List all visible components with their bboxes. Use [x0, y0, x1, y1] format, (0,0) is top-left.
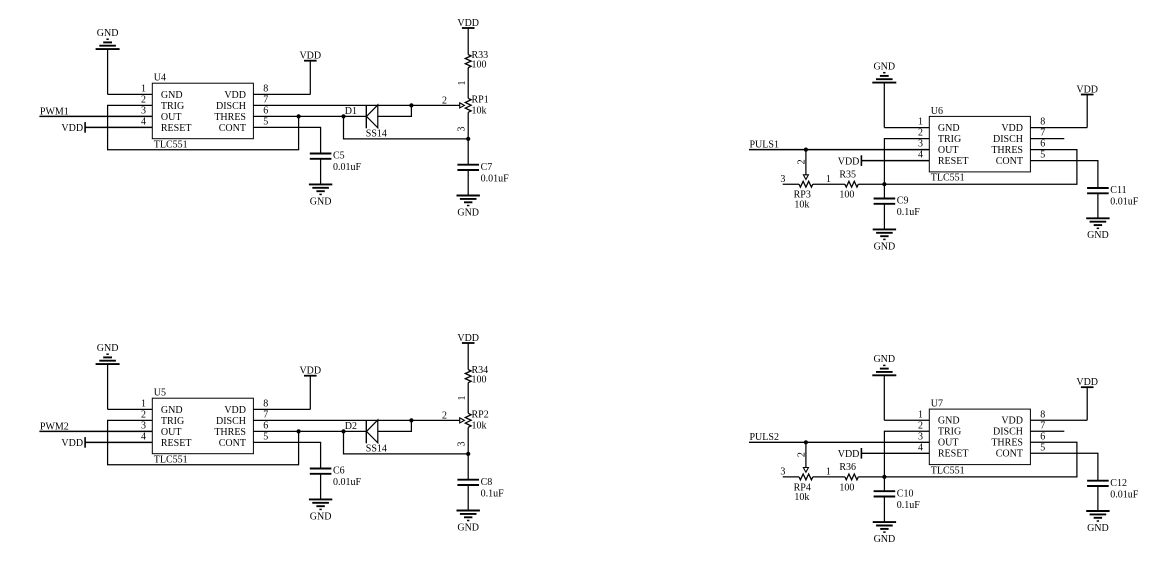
wire THRES pin6 to diode D1 — [253, 115, 366, 117]
svg-text:10k: 10k — [794, 199, 809, 210]
wiper arrow of RP4 — [803, 468, 808, 473]
svg-text:TRIG: TRIG — [161, 416, 184, 427]
svg-text:VDD: VDD — [1076, 377, 1098, 388]
svg-text:R35: R35 — [839, 169, 856, 180]
wire C8 to ground — [467, 485, 469, 511]
svg-text:GND: GND — [161, 405, 183, 416]
junction node RP2.3 — [466, 452, 470, 456]
svg-text:3: 3 — [780, 174, 785, 185]
ground GND below C5 — [309, 184, 332, 207]
power port VDD at U6 RESET — [838, 155, 862, 167]
wire RP1 bottom to C7 — [467, 112, 469, 164]
svg-text:THRES: THRES — [991, 145, 1023, 156]
svg-text:10k: 10k — [472, 420, 487, 431]
ground GND above U4 — [96, 28, 120, 49]
svg-text:VDD: VDD — [224, 90, 246, 101]
wire VDD to R33 — [467, 28, 469, 55]
svg-text:PULS2: PULS2 — [750, 432, 779, 443]
svg-text:PWM1: PWM1 — [40, 106, 69, 117]
svg-text:100: 100 — [472, 375, 487, 386]
wire VDD to RESET pin4 — [85, 126, 152, 128]
capacitor C5 0.01uF — [310, 154, 332, 159]
svg-text:SS14: SS14 — [366, 129, 387, 140]
ground GND below C8 — [457, 511, 480, 534]
svg-text:0.1uF: 0.1uF — [897, 500, 921, 511]
wire junction to C10 — [883, 477, 885, 491]
svg-text:4: 4 — [918, 150, 923, 161]
svg-text:100: 100 — [839, 190, 854, 201]
wire THRES wrap (U6) — [884, 150, 1077, 185]
svg-text:C6: C6 — [333, 466, 345, 477]
svg-text:6: 6 — [263, 420, 268, 431]
wire PULS1 to OUT pin3 — [749, 149, 929, 151]
svg-text:SS14: SS14 — [366, 444, 387, 455]
svg-text:3: 3 — [918, 431, 923, 442]
ground GND above U5 — [96, 343, 120, 364]
power symbol VDD at U4 pin8 — [299, 51, 321, 62]
ground GND below C7 — [457, 196, 480, 219]
capacitor C7 0.01uF — [457, 165, 479, 170]
wire CONT pin5 to C5 — [253, 127, 320, 153]
wire diode anode to DISCH (D2) — [378, 420, 412, 431]
svg-text:CONT: CONT — [219, 438, 246, 449]
wire PWM1 to OUT pin3 — [39, 115, 152, 117]
capacitor C8 0.1uF — [457, 480, 479, 485]
svg-text:DISCH: DISCH — [216, 416, 246, 427]
svg-text:4: 4 — [141, 116, 146, 127]
svg-text:U6: U6 — [931, 106, 943, 117]
svg-text:THRES: THRES — [214, 112, 246, 123]
svg-text:4: 4 — [918, 442, 923, 453]
svg-text:GND: GND — [873, 354, 895, 365]
junction node diode cathode (D1) — [341, 114, 345, 118]
svg-text:C8: C8 — [481, 477, 493, 488]
wire C12 to ground — [1097, 486, 1099, 511]
svg-text:6: 6 — [263, 105, 268, 116]
wire C10 to ground — [883, 497, 885, 523]
svg-text:GND: GND — [457, 522, 479, 533]
power port VDD at U4 RESET — [61, 122, 85, 134]
power symbol VDD at U7 pin8 — [1076, 377, 1098, 388]
wire PULS2 to OUT pin3 — [749, 441, 929, 443]
IC U6 TLC551 timer — [918, 106, 1045, 184]
svg-text:VDD: VDD — [61, 438, 83, 449]
svg-text:7: 7 — [1040, 420, 1045, 431]
wire C7 to ground — [467, 170, 469, 196]
wire C9 to ground — [883, 204, 885, 230]
svg-text:C5: C5 — [333, 151, 345, 162]
svg-text:PULS1: PULS1 — [750, 140, 779, 151]
svg-text:VDD: VDD — [838, 449, 860, 460]
svg-text:VDD: VDD — [1076, 84, 1098, 95]
wire RP4 to R36 — [813, 476, 845, 478]
svg-text:VDD: VDD — [299, 51, 321, 62]
junction node THRES/TRIG (U5) — [297, 429, 301, 433]
svg-text:8: 8 — [263, 83, 268, 94]
wire GND to pin1 U6 — [884, 83, 929, 128]
svg-text:TLC551: TLC551 — [931, 465, 965, 476]
capacitor C6 0.01uF — [310, 469, 332, 474]
wire RP3 to R35 — [813, 183, 845, 185]
svg-text:THRES: THRES — [214, 427, 246, 438]
junction node THRES/TRIG (U4) — [297, 114, 301, 118]
wire THRES pin6 to diode D2 — [253, 430, 366, 432]
svg-text:7: 7 — [1040, 128, 1045, 139]
svg-text:0.01uF: 0.01uF — [1110, 489, 1139, 500]
svg-text:TLC551: TLC551 — [931, 173, 965, 184]
svg-text:THRES: THRES — [991, 438, 1023, 449]
diode D2 SS14 — [345, 420, 387, 455]
svg-text:U5: U5 — [154, 388, 166, 399]
svg-text:0.01uF: 0.01uF — [333, 162, 362, 173]
svg-text:VDD: VDD — [838, 156, 860, 167]
junction node TRIG/C9 — [882, 182, 886, 186]
svg-text:C11: C11 — [1110, 185, 1126, 196]
junction node PULS1/RP3 wiper — [804, 148, 808, 152]
wire cathode junction to RP1 bottom — [344, 116, 469, 138]
svg-text:1: 1 — [918, 409, 923, 420]
svg-text:0.01uF: 0.01uF — [333, 477, 362, 488]
ground GND below C11 — [1086, 218, 1109, 241]
wire VDD to R34 — [467, 343, 469, 370]
svg-text:GND: GND — [310, 196, 332, 207]
svg-text:100: 100 — [839, 482, 854, 493]
svg-text:GND: GND — [310, 511, 332, 522]
junction node anode/DISCH (D2) — [409, 418, 413, 422]
svg-text:8: 8 — [263, 398, 268, 409]
potentiometer RP1 — [442, 95, 489, 117]
svg-text:PWM2: PWM2 — [40, 421, 69, 432]
svg-text:2: 2 — [442, 96, 447, 107]
wire TRIG pin2 down (U7) — [884, 431, 929, 477]
junction node anode/DISCH (D1) — [409, 103, 413, 107]
svg-text:TLC551: TLC551 — [154, 139, 188, 150]
resistor R35 — [839, 169, 858, 200]
svg-text:7: 7 — [263, 94, 268, 105]
svg-text:2: 2 — [141, 94, 146, 105]
capacitor C9 0.1uF — [874, 199, 896, 204]
svg-text:TRIG: TRIG — [938, 134, 961, 145]
wire R36 to junction — [858, 476, 884, 478]
wire R33 to RP1 — [467, 68, 469, 99]
potentiometer RP3 — [794, 181, 813, 210]
junction node TRIG/C10 — [882, 475, 886, 479]
wire DISCH pin7 to RP2 wiper — [253, 419, 459, 421]
svg-text:3: 3 — [141, 105, 146, 116]
svg-text:2: 2 — [918, 420, 923, 431]
svg-text:GND: GND — [457, 207, 479, 218]
wire PWM2 to OUT pin3 — [39, 430, 152, 432]
svg-text:7: 7 — [263, 409, 268, 420]
wire TRIG pin2 down (U6) — [884, 139, 929, 185]
svg-text:0.1uF: 0.1uF — [481, 488, 505, 499]
junction node RP1.3 — [466, 137, 470, 141]
wire junction to C9 — [883, 184, 885, 198]
svg-text:1: 1 — [457, 396, 468, 401]
svg-text:RP1: RP1 — [472, 95, 489, 106]
wire DISCH pin7 stub (U7) — [1030, 430, 1064, 432]
svg-text:1: 1 — [826, 174, 831, 185]
ground GND below C9 — [873, 229, 896, 252]
svg-text:5: 5 — [1040, 442, 1045, 453]
resistor R34 — [465, 365, 488, 386]
svg-text:VDD: VDD — [224, 405, 246, 416]
wire GND to pin1 U7 — [884, 375, 929, 420]
svg-text:GND: GND — [97, 343, 119, 354]
svg-text:VDD: VDD — [61, 123, 83, 134]
wire CONT pin5 to C12 — [1030, 453, 1098, 480]
svg-text:1: 1 — [141, 83, 146, 94]
svg-text:5: 5 — [263, 116, 268, 127]
wire CONT pin5 to C6 — [253, 442, 320, 468]
wire VDD to RESET pin4 (U7) — [861, 452, 929, 454]
svg-text:6: 6 — [1040, 139, 1045, 150]
svg-text:0.1uF: 0.1uF — [897, 207, 921, 218]
svg-text:10k: 10k — [794, 492, 809, 503]
svg-text:VDD: VDD — [457, 18, 479, 29]
wire RP4 left stub — [783, 476, 799, 478]
wire VDD to pin8 (U5) — [253, 376, 310, 410]
svg-text:GND: GND — [97, 28, 119, 39]
svg-text:GND: GND — [1087, 230, 1109, 241]
svg-text:TRIG: TRIG — [161, 101, 184, 112]
wire VDD to pin8 (U4) — [253, 61, 310, 95]
svg-text:U4: U4 — [154, 73, 166, 84]
wire R34 to RP2 — [467, 383, 469, 414]
svg-text:RESET: RESET — [938, 449, 969, 460]
resistor R36 — [839, 462, 858, 493]
svg-text:CONT: CONT — [219, 123, 246, 134]
svg-text:5: 5 — [1040, 150, 1045, 161]
potentiometer RP2 — [442, 410, 489, 432]
svg-text:VDD: VDD — [1001, 416, 1023, 427]
svg-text:OUT: OUT — [161, 427, 182, 438]
svg-text:C9: C9 — [897, 196, 909, 207]
svg-text:GND: GND — [874, 241, 896, 252]
svg-text:D1: D1 — [345, 106, 357, 117]
wire diode anode to DISCH (D1) — [378, 105, 412, 116]
wire C5 to ground — [320, 159, 322, 185]
svg-text:RESET: RESET — [161, 438, 192, 449]
wire DISCH pin7 to RP1 wiper — [253, 104, 459, 106]
svg-text:3: 3 — [141, 420, 146, 431]
junction node PULS2/RP4 wiper — [804, 440, 808, 444]
svg-text:RESET: RESET — [161, 123, 192, 134]
svg-text:2: 2 — [918, 128, 923, 139]
svg-text:CONT: CONT — [996, 156, 1023, 167]
wire GND to pin1 U4 — [108, 49, 153, 94]
IC U4 TLC551 timer — [141, 73, 268, 151]
svg-text:DISCH: DISCH — [993, 134, 1023, 145]
svg-text:3: 3 — [780, 467, 785, 478]
svg-text:DISCH: DISCH — [993, 427, 1023, 438]
svg-text:GND: GND — [938, 416, 960, 427]
wire R35 to junction — [858, 183, 884, 185]
svg-text:OUT: OUT — [161, 112, 182, 123]
capacitor C10 0.1uF — [874, 491, 896, 496]
wire VDD to RESET pin4 — [85, 441, 152, 443]
svg-text:RESET: RESET — [938, 156, 969, 167]
resistor R33 — [465, 50, 488, 71]
wire C11 to ground — [1097, 193, 1099, 218]
svg-text:0.01uF: 0.01uF — [1110, 197, 1139, 208]
svg-text:1: 1 — [826, 467, 831, 478]
svg-text:CONT: CONT — [996, 449, 1023, 460]
wiper arrow of RP2 — [460, 418, 465, 423]
wire RP3 left stub — [783, 183, 799, 185]
ground GND below C12 — [1086, 511, 1109, 534]
svg-text:10k: 10k — [472, 105, 487, 116]
diode D1 SS14 — [345, 105, 387, 140]
svg-text:3: 3 — [456, 442, 467, 447]
wire C6 to ground — [320, 474, 322, 500]
wire GND to pin1 U5 — [108, 364, 153, 409]
svg-text:1: 1 — [141, 398, 146, 409]
wire RP2 bottom to C8 — [467, 427, 469, 479]
wiper arrow of RP1 — [460, 103, 465, 108]
svg-text:1: 1 — [918, 117, 923, 128]
svg-text:8: 8 — [1040, 409, 1045, 420]
wiper arrow of RP3 — [803, 175, 808, 180]
svg-text:VDD: VDD — [299, 366, 321, 377]
svg-text:DISCH: DISCH — [216, 101, 246, 112]
svg-text:VDD: VDD — [1001, 123, 1023, 134]
svg-text:1: 1 — [457, 81, 468, 86]
svg-text:0.01uF: 0.01uF — [481, 173, 510, 184]
svg-text:6: 6 — [1040, 431, 1045, 442]
wire TRIG wrap to THRES (U5) — [108, 420, 299, 464]
wire VDD to pin8 (U7) — [1030, 387, 1087, 420]
svg-text:R36: R36 — [839, 462, 856, 473]
IC U7 TLC551 timer — [918, 399, 1045, 477]
ground GND below C10 — [873, 522, 896, 545]
junction node diode cathode (D2) — [341, 429, 345, 433]
svg-text:OUT: OUT — [938, 438, 959, 449]
svg-text:3: 3 — [918, 139, 923, 150]
svg-text:TLC551: TLC551 — [154, 454, 188, 465]
power symbol VDD above R34 — [457, 333, 479, 344]
svg-text:2: 2 — [141, 409, 146, 420]
wire CONT pin5 to C11 — [1030, 161, 1098, 188]
svg-text:U7: U7 — [931, 399, 943, 410]
svg-text:GND: GND — [873, 62, 895, 73]
ground GND above U6 — [872, 62, 896, 83]
svg-text:C7: C7 — [481, 162, 493, 173]
ground GND above U7 — [872, 354, 896, 375]
svg-text:RP2: RP2 — [472, 410, 489, 421]
capacitor C11 0.01uF — [1087, 188, 1109, 193]
svg-text:2: 2 — [442, 411, 447, 422]
svg-text:GND: GND — [938, 123, 960, 134]
power symbol VDD at U6 pin8 — [1076, 84, 1098, 95]
power symbol VDD at U5 pin8 — [299, 366, 321, 377]
svg-text:GND: GND — [1087, 523, 1109, 534]
wire wiper of RP4 — [805, 442, 807, 467]
capacitor C12 0.01uF — [1087, 481, 1109, 486]
svg-text:D2: D2 — [345, 421, 357, 432]
svg-text:VDD: VDD — [457, 333, 479, 344]
power port VDD at U7 RESET — [838, 448, 862, 460]
wire DISCH pin7 stub (U6) — [1030, 138, 1064, 140]
svg-text:100: 100 — [472, 60, 487, 71]
wire VDD to RESET pin4 (U6) — [861, 160, 929, 162]
power symbol VDD above R33 — [457, 18, 479, 29]
svg-text:GND: GND — [874, 534, 896, 545]
wire cathode junction to RP2 bottom — [344, 431, 469, 454]
power port VDD at U5 RESET — [61, 437, 85, 449]
svg-text:TRIG: TRIG — [938, 427, 961, 438]
svg-text:5: 5 — [263, 431, 268, 442]
svg-text:OUT: OUT — [938, 145, 959, 156]
wire VDD to pin8 (U6) — [1030, 95, 1087, 128]
svg-text:C10: C10 — [897, 488, 914, 499]
IC U5 TLC551 timer — [141, 388, 268, 466]
wire wiper of RP3 — [805, 150, 807, 175]
wire TRIG wrap to THRES (U4) — [108, 105, 299, 149]
svg-text:8: 8 — [1040, 117, 1045, 128]
svg-text:C12: C12 — [1110, 478, 1127, 489]
svg-text:3: 3 — [456, 127, 467, 132]
wire THRES wrap (U7) — [884, 442, 1077, 477]
potentiometer RP4 — [794, 474, 813, 503]
ground GND below C6 — [309, 499, 332, 522]
svg-text:4: 4 — [141, 431, 146, 442]
svg-text:GND: GND — [161, 90, 183, 101]
